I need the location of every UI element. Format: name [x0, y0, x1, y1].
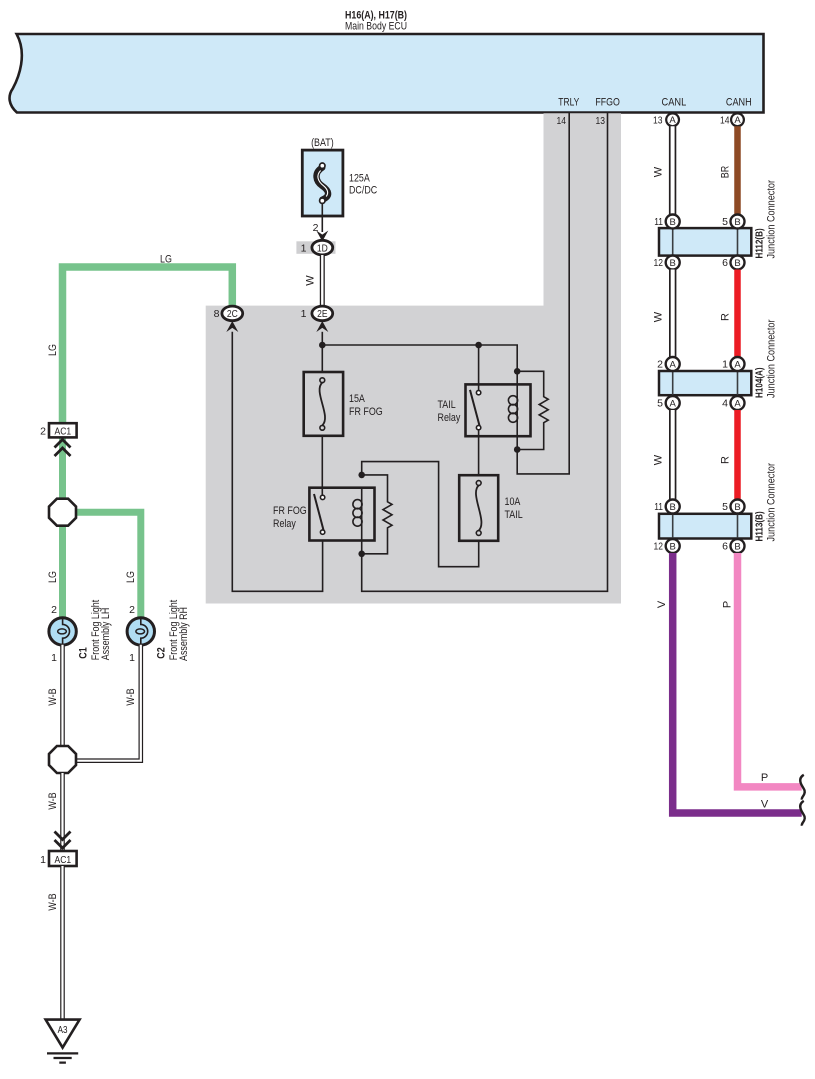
node dot TAIL coil top: [514, 368, 521, 375]
connector 2E: [301, 306, 333, 321]
wire W CANL segment 3: [669, 410, 676, 500]
svg-text:C2: C2: [156, 647, 168, 658]
svg-text:Relay: Relay: [273, 518, 296, 530]
svg-text:W: W: [653, 311, 665, 322]
svg-text:W-B: W-B: [47, 688, 59, 705]
svg-text:A: A: [670, 399, 677, 410]
connector 1D highlight: [296, 241, 335, 254]
svg-text:Junction Connector: Junction Connector: [766, 319, 778, 398]
svg-text:13: 13: [596, 115, 606, 127]
relay TAIL: [438, 384, 531, 449]
wire from 2E down to 15A fuse: [321, 332, 323, 372]
node dot FR FOG coil top: [358, 472, 365, 479]
svg-text:4: 4: [722, 398, 728, 410]
ECU U1 Main Body ECU block: [10, 10, 764, 113]
wire LG junction J1 to fog light C2: [75, 512, 141, 618]
svg-text:Junction Connector: Junction Connector: [766, 463, 778, 542]
junction node J2 octagon: [49, 746, 76, 773]
svg-text:1: 1: [722, 359, 728, 371]
svg-text:R: R: [720, 456, 732, 464]
svg-text:2: 2: [129, 604, 135, 616]
ground symbol hatch: [47, 1053, 78, 1062]
svg-text:W: W: [305, 275, 317, 286]
wire LG junction J1 to fog light C1: [59, 526, 66, 619]
svg-text:A3: A3: [58, 1025, 68, 1036]
svg-text:H104(A): H104(A): [755, 367, 766, 398]
svg-text:1: 1: [301, 242, 307, 254]
wire R CANH segment 3: [734, 410, 741, 500]
svg-text:TAIL: TAIL: [438, 399, 456, 411]
node dot at TAIL switch branch: [475, 342, 482, 349]
svg-text:12: 12: [654, 541, 664, 553]
wire R CANH segment 2: [734, 270, 741, 358]
svg-text:1: 1: [51, 652, 57, 664]
svg-text:11: 11: [654, 501, 663, 513]
label C2 Front Fog Light Assembly RH: [156, 600, 191, 661]
svg-text:R: R: [720, 313, 732, 321]
svg-text:P: P: [722, 601, 734, 608]
wire P from H113: [738, 553, 802, 787]
svg-text:W: W: [653, 454, 665, 465]
wire W-B from C1 to junction J2: [60, 645, 65, 746]
connector AC1 pin 1: [40, 851, 76, 866]
svg-text:2E: 2E: [317, 308, 327, 320]
pin 13 CANL circle A: [653, 113, 679, 126]
svg-text:B: B: [670, 217, 676, 228]
svg-text:1: 1: [40, 854, 46, 866]
svg-text:TRLY: TRLY: [558, 97, 580, 109]
svg-text:1: 1: [129, 652, 135, 664]
svg-text:W-B: W-B: [47, 792, 59, 809]
svg-text:B: B: [734, 217, 740, 228]
svg-text:15A: 15A: [349, 393, 365, 405]
resistor across TAIL relay coil: [517, 371, 548, 449]
svg-text:Relay: Relay: [438, 412, 461, 424]
svg-text:H112(B): H112(B): [755, 228, 766, 258]
wire 15A fuse to FR FOG relay switch: [321, 436, 323, 496]
svg-text:A: A: [669, 115, 676, 126]
continuation squiggle P: [800, 775, 804, 800]
svg-text:DC/DC: DC/DC: [349, 185, 377, 197]
svg-text:B: B: [734, 542, 740, 553]
svg-text:1D: 1D: [317, 242, 328, 254]
svg-text:1: 1: [301, 308, 307, 320]
svg-text:Assembly RH: Assembly RH: [178, 607, 190, 661]
svg-text:B: B: [734, 258, 740, 269]
ground point A3: [46, 1020, 80, 1048]
svg-text:BR: BR: [720, 166, 732, 178]
junction node J1 octagon: [49, 499, 76, 526]
wire from 125A fuse to connector 1D: [321, 203, 323, 232]
svg-text:12: 12: [654, 257, 664, 269]
svg-text:AC1: AC1: [55, 854, 72, 866]
fuse 10A TAIL: [459, 475, 523, 541]
svg-text:FFGO: FFGO: [595, 97, 620, 109]
svg-text:Junction Connector: Junction Connector: [766, 180, 778, 259]
junction connector H112(B): [654, 180, 778, 270]
svg-text:6: 6: [722, 541, 728, 553]
svg-text:A: A: [734, 399, 741, 410]
svg-text:14: 14: [557, 115, 567, 127]
wire W CANL segment 2: [669, 270, 676, 358]
connector 1D: [301, 240, 333, 255]
svg-text:Assembly LH: Assembly LH: [100, 608, 112, 661]
svg-text:2: 2: [51, 604, 57, 616]
connector arrow into 2E: [316, 321, 328, 332]
svg-text:5: 5: [722, 501, 728, 513]
connector arrow into 1D: [316, 231, 328, 242]
svg-text:2: 2: [657, 359, 663, 371]
connector arrow chevrons below AC1 pin 2: [55, 440, 71, 457]
svg-text:B: B: [670, 502, 676, 513]
svg-text:A: A: [734, 115, 741, 126]
fog light bulb C1: [49, 618, 76, 645]
continuation squiggle V: [800, 801, 804, 826]
svg-text:C1: C1: [78, 647, 90, 658]
svg-text:B: B: [670, 542, 676, 553]
svg-text:P: P: [761, 772, 768, 784]
svg-text:LG: LG: [47, 344, 59, 356]
wire TAIL relay switch to 10A fuse: [478, 430, 480, 475]
connector 2C: [214, 306, 243, 321]
node dot at 2E branch: [319, 342, 326, 349]
svg-text:8: 8: [214, 308, 220, 320]
wire TRLY: [517, 113, 569, 474]
svg-text:(BAT): (BAT): [311, 137, 334, 149]
svg-text:2C: 2C: [227, 308, 238, 320]
wire bus from 2E node to TAIL relay: [322, 345, 517, 384]
svg-text:5: 5: [722, 216, 728, 228]
svg-text:125A: 125A: [349, 173, 370, 185]
svg-text:13: 13: [653, 114, 663, 126]
resistor across FR FOG relay coil: [362, 475, 392, 554]
svg-text:A: A: [734, 360, 741, 371]
svg-text:B: B: [670, 258, 676, 269]
wire V from H113: [673, 553, 802, 813]
connector arrow chevrons above AC1 pin 1: [55, 832, 71, 849]
junction connector H104(A): [657, 319, 777, 410]
gray harness background block: [206, 113, 621, 603]
svg-text:A: A: [670, 360, 677, 371]
svg-text:LG: LG: [125, 571, 137, 583]
svg-text:W-B: W-B: [125, 688, 137, 705]
svg-text:LG: LG: [47, 571, 59, 583]
wire FFGO: [362, 113, 608, 591]
svg-text:B: B: [734, 502, 740, 513]
svg-text:14: 14: [720, 114, 730, 126]
wire LG from connector 2C to AC1: [63, 267, 233, 424]
svg-text:CANL: CANL: [662, 97, 687, 109]
svg-text:W-B: W-B: [47, 893, 59, 910]
fuse 15A FR FOG: [304, 372, 383, 436]
svg-text:Main Body ECU: Main Body ECU: [345, 21, 407, 33]
junction connector H113(B): [654, 463, 778, 553]
svg-text:LG: LG: [160, 254, 172, 266]
svg-text:TAIL: TAIL: [505, 509, 523, 521]
wire BR CANH segment 1: [734, 126, 741, 214]
svg-text:11: 11: [654, 216, 663, 228]
wire branch to TAIL relay switch: [478, 345, 480, 390]
node dot TAIL coil bottom: [514, 446, 521, 453]
wire W between 1D and 2E: [320, 255, 325, 306]
svg-text:FR FOG: FR FOG: [273, 505, 307, 517]
svg-text:2: 2: [40, 426, 46, 438]
svg-text:10A: 10A: [505, 496, 521, 508]
connector AC1 pin 2: [40, 423, 76, 437]
wire W-B from C2 to junction J2: [77, 645, 141, 761]
node dot FR FOG coil bottom: [358, 551, 365, 558]
wire W-B AC1 pin 1 to ground: [60, 866, 65, 1020]
wire LG AC1 to junction J1: [59, 438, 66, 500]
svg-text:V: V: [761, 799, 769, 811]
label C1 Front Fog Light Assembly LH: [78, 600, 113, 660]
wire W-B junction J2 to AC1 pin 1: [60, 773, 65, 851]
svg-text:W: W: [653, 166, 665, 177]
svg-text:CANH: CANH: [726, 97, 752, 109]
wire 10A fuse to FR FOG relay coil: [362, 462, 479, 567]
svg-text:6: 6: [722, 257, 728, 269]
pin 14 CANH circle A: [720, 113, 744, 126]
connector arrow into 2C: [226, 321, 238, 332]
wire W CANL segment 1: [669, 126, 676, 214]
relay FR FOG: [273, 488, 375, 554]
fusible link 125A DC/DC: [302, 137, 377, 216]
svg-text:5: 5: [657, 398, 663, 410]
svg-text:FR FOG: FR FOG: [349, 406, 383, 418]
svg-text:AC1: AC1: [55, 426, 72, 438]
svg-text:H113(B): H113(B): [755, 511, 766, 541]
wire from 2C down and to FR FOG relay switch: [232, 332, 322, 592]
fog light bulb C2: [127, 618, 154, 645]
svg-text:V: V: [656, 600, 668, 608]
